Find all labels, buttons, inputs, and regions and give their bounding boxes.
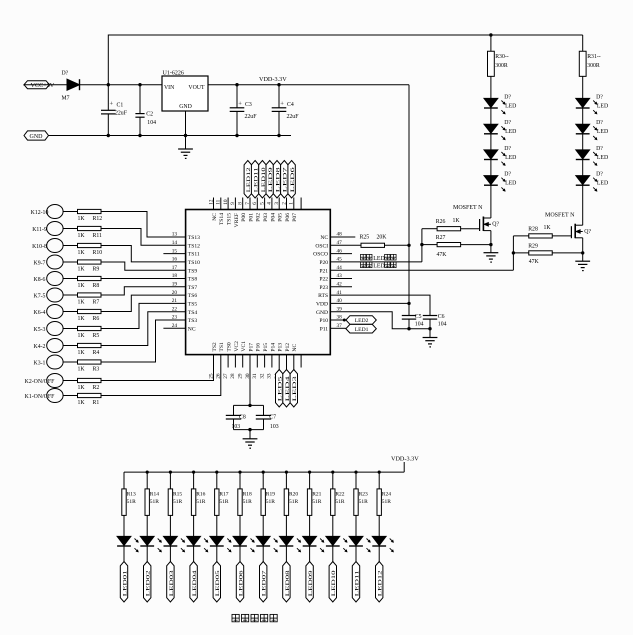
svg-text:VREF: VREF [234, 213, 240, 227]
svg-text:RTS: RTS [318, 293, 328, 299]
svg-text:1K: 1K [78, 283, 86, 289]
svg-text:4: 4 [267, 202, 273, 205]
svg-text:TS13: TS13 [188, 235, 200, 241]
svg-text:R15: R15 [173, 492, 182, 498]
svg-text:R30--: R30-- [495, 54, 509, 60]
svg-text:7: 7 [245, 202, 251, 205]
svg-text:R31--: R31-- [587, 54, 601, 60]
svg-text:2: 2 [281, 202, 287, 205]
svg-text:VCC+5V: VCC+5V [31, 82, 55, 89]
svg-text:47K: 47K [529, 259, 540, 265]
svg-text:104: 104 [147, 120, 156, 126]
svg-text:R21: R21 [312, 492, 321, 498]
svg-text:C3: C3 [245, 102, 252, 108]
svg-text:5: 5 [259, 202, 265, 205]
svg-text:R28: R28 [528, 226, 538, 232]
svg-text:K5-3: K5-3 [34, 327, 46, 333]
svg-text:K2-ON/OFF: K2-ON/OFF [25, 379, 55, 385]
svg-text:R1: R1 [93, 400, 100, 406]
svg-text:R11: R11 [93, 233, 103, 239]
svg-text:8: 8 [238, 202, 244, 205]
svg-text:D?: D? [596, 94, 603, 100]
svg-text:LED: LED [597, 181, 608, 187]
svg-text:9: 9 [230, 202, 236, 205]
svg-text:TS1: TS1 [219, 342, 225, 352]
svg-text:R19: R19 [266, 492, 275, 498]
svg-text:D?: D? [62, 71, 69, 77]
svg-text:104: 104 [438, 322, 447, 328]
svg-text:Q?: Q? [584, 229, 591, 235]
svg-text:P13: P13 [278, 343, 284, 352]
svg-text:TS4: TS4 [188, 310, 198, 316]
svg-text:22uF: 22uF [287, 114, 300, 120]
svg-text:R23: R23 [359, 492, 368, 498]
svg-text:D?: D? [504, 146, 511, 152]
svg-text:11: 11 [216, 199, 222, 204]
svg-text:MOSFET N: MOSFET N [453, 205, 483, 211]
svg-text:K9-7: K9-7 [34, 260, 46, 266]
svg-text:LED10: LED10 [331, 570, 337, 597]
svg-text:LED: LED [597, 129, 608, 135]
svg-text:TS8: TS8 [188, 277, 198, 283]
svg-text:P14: P14 [270, 343, 276, 352]
svg-text:R24: R24 [382, 492, 391, 498]
svg-text:R16: R16 [196, 492, 205, 498]
svg-text:NC: NC [292, 344, 298, 352]
svg-text:K1-ON/OFF: K1-ON/OFF [25, 394, 55, 400]
svg-text:6: 6 [252, 202, 258, 205]
svg-text:C2: C2 [146, 112, 153, 118]
svg-text:TS7: TS7 [188, 285, 198, 291]
svg-text:TS9: TS9 [188, 268, 198, 274]
svg-text:R27: R27 [436, 235, 446, 241]
svg-text:R14: R14 [150, 492, 159, 498]
svg-text:NC: NC [188, 326, 196, 332]
svg-text:1K: 1K [78, 350, 86, 356]
svg-text:P00: P00 [241, 213, 247, 222]
svg-text:P17: P17 [248, 343, 254, 352]
svg-text:K6-4: K6-4 [34, 310, 46, 316]
svg-text:C5: C5 [415, 314, 422, 320]
svg-text:D?: D? [596, 146, 603, 152]
svg-text:D?: D? [596, 172, 603, 178]
svg-text:12: 12 [208, 199, 214, 205]
svg-text:D?: D? [504, 172, 511, 178]
svg-text:22uF: 22uF [245, 114, 258, 120]
svg-text:LED03: LED03 [169, 570, 175, 597]
svg-text:P11: P11 [320, 326, 329, 332]
svg-text:R3: R3 [93, 367, 100, 373]
svg-text:VIN: VIN [164, 85, 175, 91]
svg-text:LED: LED [373, 256, 385, 262]
svg-text:LED: LED [505, 103, 516, 109]
svg-text:K4-2: K4-2 [34, 344, 46, 350]
svg-text:TS15: TS15 [227, 213, 233, 225]
svg-text:TS14: TS14 [219, 213, 225, 225]
svg-text:103: 103 [270, 424, 279, 430]
svg-text:33: 33 [267, 373, 273, 379]
svg-text:P01: P01 [248, 213, 254, 222]
svg-text:VC1: VC1 [241, 341, 247, 352]
svg-text:R18: R18 [243, 492, 252, 498]
svg-text:22uF: 22uF [115, 110, 128, 116]
svg-text:P23: P23 [319, 285, 328, 291]
svg-text:20K: 20K [377, 234, 388, 240]
svg-text:LED: LED [505, 155, 516, 161]
svg-text:P21: P21 [319, 268, 328, 274]
svg-text:1K: 1K [78, 385, 86, 391]
svg-text:R12: R12 [93, 216, 103, 222]
svg-text:29: 29 [238, 373, 244, 379]
svg-text:M7: M7 [62, 96, 70, 102]
svg-text:GND: GND [179, 104, 192, 110]
svg-text:P05: P05 [278, 213, 284, 222]
svg-text:R22: R22 [335, 492, 344, 498]
svg-text:LED09: LED09 [308, 570, 314, 597]
svg-text:R2: R2 [93, 385, 100, 391]
svg-text:51R: 51R [243, 499, 253, 505]
svg-text:K12-10: K12-10 [31, 210, 49, 216]
svg-text:D?: D? [504, 120, 511, 126]
svg-text:C4: C4 [287, 102, 294, 108]
svg-text:1K: 1K [78, 333, 86, 339]
svg-text:51R: 51R [335, 499, 345, 505]
svg-text:1: 1 [289, 202, 295, 205]
svg-text:C7: C7 [269, 414, 276, 420]
svg-text:MOSFET N: MOSFET N [545, 212, 575, 218]
svg-text:51R: 51R [196, 499, 206, 505]
svg-text:OSCI: OSCI [315, 243, 328, 249]
svg-text:47K: 47K [437, 252, 448, 258]
svg-text:P10: P10 [319, 318, 328, 324]
svg-text:LED07: LED07 [262, 570, 268, 597]
svg-text:LED02: LED02 [146, 570, 152, 597]
svg-text:1K: 1K [78, 250, 86, 256]
svg-text:TS10: TS10 [188, 260, 200, 266]
svg-text:R20: R20 [289, 492, 298, 498]
svg-text:1K: 1K [78, 367, 86, 373]
svg-text:51R: 51R [150, 499, 160, 505]
svg-text:1K: 1K [78, 233, 86, 239]
svg-text:LED1: LED1 [355, 327, 369, 333]
svg-text:104: 104 [415, 322, 424, 328]
svg-text:Q?: Q? [492, 222, 499, 228]
svg-text:LED: LED [505, 181, 516, 187]
svg-text:VDD-3.3V: VDD-3.3V [259, 76, 287, 83]
svg-text:P06: P06 [285, 213, 291, 222]
svg-text:R26: R26 [436, 219, 446, 225]
svg-text:P12: P12 [285, 343, 291, 352]
svg-text:LED: LED [597, 155, 608, 161]
svg-text:R17: R17 [219, 492, 228, 498]
svg-text:51R: 51R [127, 499, 137, 505]
svg-text:31: 31 [252, 373, 258, 379]
svg-text:OSCO: OSCO [313, 252, 328, 258]
svg-text:LED04: LED04 [192, 570, 198, 597]
svg-text:1K: 1K [78, 300, 86, 306]
svg-text:R6: R6 [93, 316, 100, 322]
svg-text:LED01: LED01 [122, 570, 128, 597]
svg-text:K3-1: K3-1 [34, 360, 46, 366]
svg-text:1K: 1K [453, 218, 461, 224]
svg-text:R4: R4 [93, 350, 100, 356]
svg-text:51R: 51R [359, 499, 369, 505]
svg-text:LED11: LED11 [354, 570, 360, 597]
svg-text:1K: 1K [78, 316, 86, 322]
svg-text:TS11: TS11 [188, 252, 200, 258]
svg-text:1K: 1K [78, 267, 86, 273]
svg-text:R13: R13 [127, 492, 136, 498]
svg-text:32: 32 [259, 373, 265, 379]
svg-text:51R: 51R [312, 499, 322, 505]
svg-text:P20: P20 [319, 260, 328, 266]
svg-text:27: 27 [223, 373, 229, 379]
svg-text:10: 10 [223, 199, 229, 205]
svg-text:P22: P22 [319, 277, 328, 283]
svg-text:LED: LED [597, 103, 608, 109]
svg-text:TS3: TS3 [188, 318, 198, 324]
svg-text:+: + [280, 100, 284, 107]
svg-text:TS12: TS12 [188, 243, 200, 249]
svg-text:LED12: LED12 [378, 570, 384, 597]
svg-text:GND: GND [316, 310, 328, 316]
svg-text:103: 103 [232, 424, 241, 430]
svg-text:C8: C8 [239, 414, 246, 420]
svg-text:K7-5: K7-5 [34, 293, 46, 299]
svg-text:U1-6226: U1-6226 [163, 70, 184, 76]
svg-text:R9: R9 [93, 267, 100, 273]
svg-text:C1: C1 [117, 103, 124, 109]
svg-text:K8-6: K8-6 [34, 277, 46, 283]
svg-text:K10-8: K10-8 [32, 244, 47, 250]
svg-text:C6: C6 [438, 314, 445, 320]
svg-text:LED08: LED08 [285, 570, 291, 597]
svg-text:NC: NC [320, 235, 328, 241]
svg-text:P02: P02 [256, 213, 262, 222]
svg-text:LED05: LED05 [215, 570, 221, 597]
svg-text:R5: R5 [93, 333, 100, 339]
svg-text:D?: D? [596, 120, 603, 126]
svg-text:51R: 51R [266, 499, 276, 505]
svg-text:51R: 51R [173, 499, 183, 505]
svg-text:28: 28 [230, 373, 236, 379]
svg-text:GND: GND [30, 134, 44, 140]
svg-text:LED06: LED06 [238, 570, 244, 597]
svg-text:R8: R8 [93, 283, 100, 289]
svg-text:LED: LED [373, 264, 385, 270]
svg-text:VDD-3.3V: VDD-3.3V [391, 455, 419, 462]
svg-text:P07: P07 [292, 213, 298, 222]
svg-text:LED2: LED2 [355, 318, 369, 324]
svg-text:D?: D? [504, 94, 511, 100]
svg-text:LED: LED [505, 129, 516, 135]
svg-text:1K: 1K [78, 400, 86, 406]
svg-text:51R: 51R [289, 499, 299, 505]
svg-text:51R: 51R [219, 499, 229, 505]
svg-text:P16: P16 [256, 343, 262, 352]
svg-text:P03: P03 [263, 213, 269, 222]
svg-text:R25: R25 [360, 234, 370, 240]
svg-text:+: + [110, 101, 114, 108]
svg-text:1K: 1K [544, 225, 552, 231]
svg-text:LED3: LED3 [292, 376, 298, 402]
svg-text:1K: 1K [78, 216, 86, 222]
svg-text:300R: 300R [587, 63, 600, 69]
svg-text:TS6: TS6 [188, 293, 198, 299]
svg-text:LED6: LED6 [290, 167, 296, 193]
svg-text:R29: R29 [528, 244, 538, 250]
svg-text:+: + [238, 100, 242, 107]
svg-text:51R: 51R [382, 499, 392, 505]
svg-text:NC: NC [212, 213, 218, 221]
svg-text:R10: R10 [93, 250, 103, 256]
svg-text:P04: P04 [270, 213, 276, 222]
svg-text:3: 3 [274, 202, 280, 205]
svg-text:R7: R7 [93, 300, 100, 306]
svg-text:VC2: VC2 [234, 341, 240, 352]
svg-text:300R: 300R [495, 63, 508, 69]
svg-text:TS0: TS0 [227, 342, 233, 352]
svg-text:TS5: TS5 [188, 302, 198, 308]
svg-text:TS2: TS2 [212, 342, 218, 352]
svg-text:VDD: VDD [316, 302, 328, 308]
svg-text:VOUT: VOUT [188, 85, 205, 91]
svg-text:P15: P15 [263, 343, 269, 352]
svg-text:K11-9: K11-9 [32, 227, 47, 233]
